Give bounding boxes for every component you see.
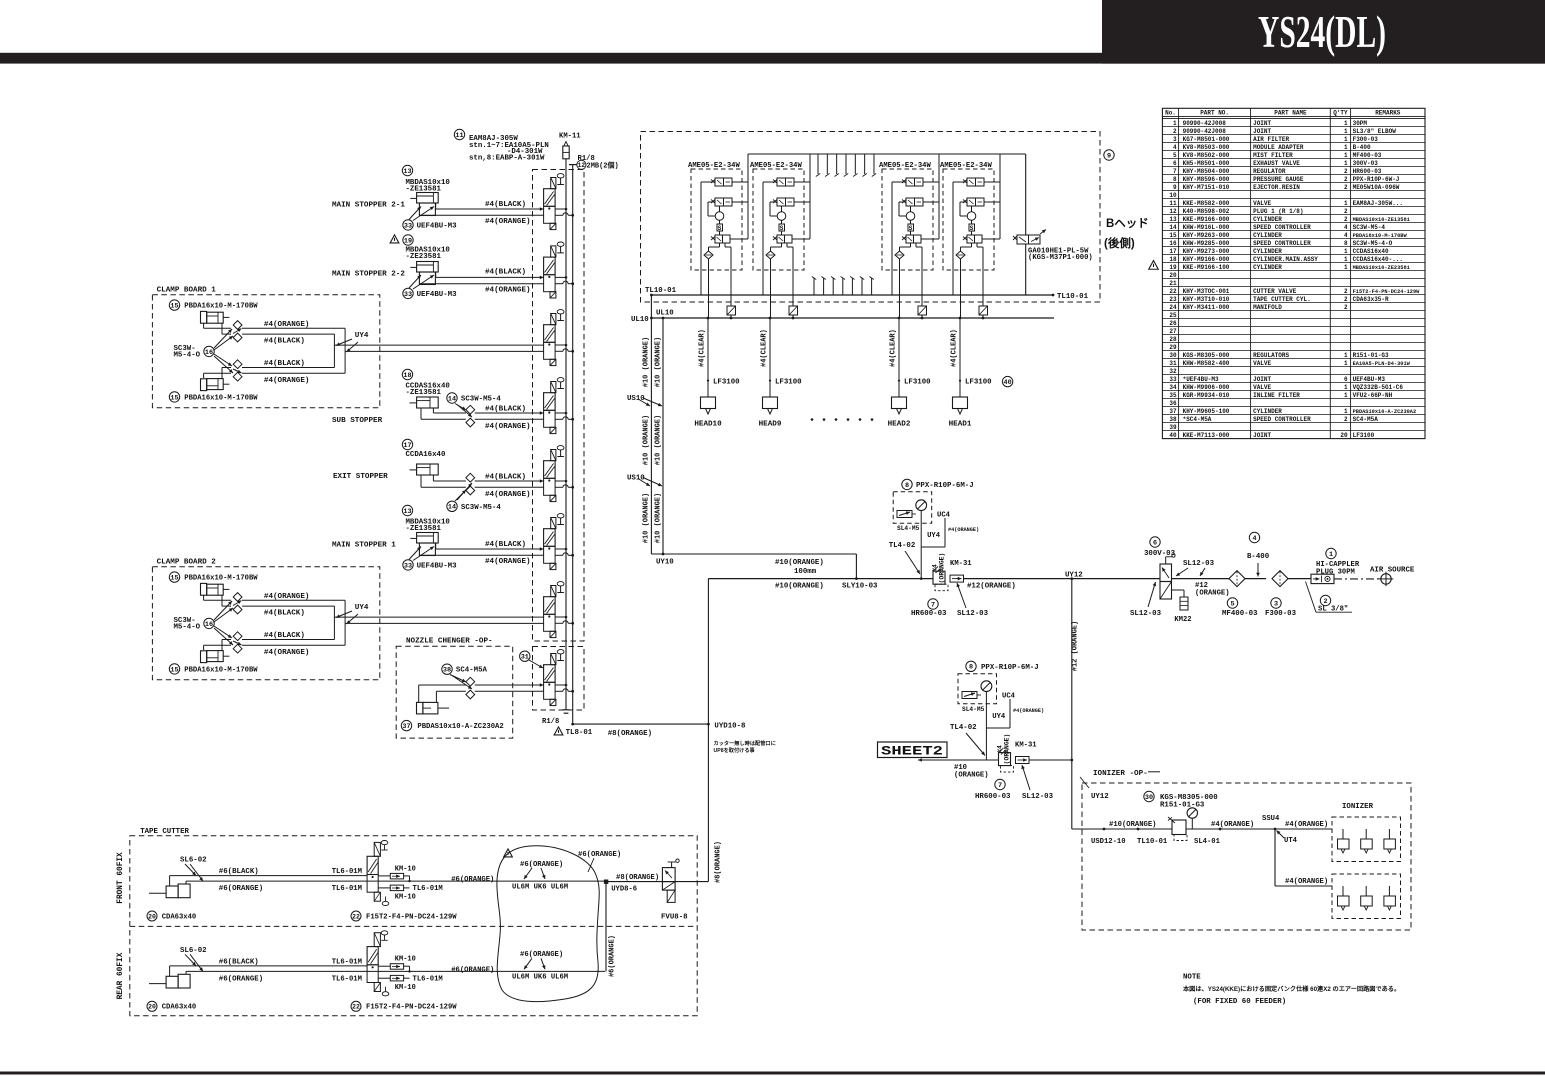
svg-text:KGR-M9934-010: KGR-M9934-010 [1183, 392, 1230, 399]
svg-text:38: 38 [443, 667, 451, 675]
svg-text:24: 24 [1169, 304, 1177, 311]
svg-text:M5-4-O: M5-4-O [174, 352, 201, 360]
svg-text:TL6-01M: TL6-01M [332, 975, 362, 983]
hand-drawn blob around UL6M labels [497, 846, 599, 1002]
svg-text:PART NO.: PART NO. [1200, 110, 1229, 117]
svg-text:17: 17 [1169, 248, 1177, 255]
svg-text:UYD8-6: UYD8-6 [611, 885, 637, 893]
speed controller 14 sub stopper [421, 393, 501, 427]
svg-text:KKE-M8582-000: KKE-M8582-000 [1183, 200, 1230, 207]
air filter 3 F300-03 [1265, 571, 1311, 618]
ionizer unit box 2 [1332, 874, 1401, 919]
svg-text:KHY-M3411-000: KHY-M3411-000 [1183, 304, 1230, 311]
svg-text:Bヘッド: Bヘッド [1106, 217, 1149, 230]
svg-text:PBDA16x10-M-170BW: PBDA16x10-M-170BW [184, 394, 258, 402]
head top supply bus [748, 153, 1026, 155]
speed controller 16 upper CLAMP BOARD 1 [204, 321, 242, 342]
svg-text:PRESSURE GAUGE: PRESSURE GAUGE [1253, 176, 1304, 183]
svg-text:PART NAME: PART NAME [1274, 110, 1307, 117]
svg-text:EXHAUST VALVE: EXHAUST VALVE [1253, 160, 1300, 167]
svg-text:EJECTOR.RESIN: EJECTOR.RESIN [1253, 184, 1300, 191]
svg-text:#6(BLACK): #6(BLACK) [219, 868, 259, 876]
svg-text:SL3/8" ELBOW: SL3/8" ELBOW [1353, 128, 1397, 135]
joint 1 HI-CAPPLER PLUG 30PM [1311, 548, 1360, 583]
svg-text:SL6-02: SL6-02 [180, 947, 207, 955]
svg-text:MAIN STOPPER 2-2: MAIN STOPPER 2-2 [332, 271, 405, 279]
svg-text:1: 1 [1344, 200, 1348, 207]
svg-text:LF3100: LF3100 [713, 379, 740, 387]
svg-text:15: 15 [170, 394, 178, 402]
svg-text:KHY-M7151-010: KHY-M7151-010 [1183, 184, 1230, 191]
svg-text:KHY-M8596-000: KHY-M8596-000 [1183, 176, 1230, 183]
svg-text:36: 36 [1169, 400, 1177, 407]
pilot bus R1/8 vertical line [569, 165, 577, 725]
module adapter 4 B-400 [1245, 532, 1270, 578]
wire #4 black main stopper 2-1 [436, 201, 544, 211]
svg-text:PBDAS10x10-A-ZC230A2: PBDAS10x10-A-ZC230A2 [1353, 409, 1417, 415]
cutter valve 22 F15T2 rear [351, 931, 457, 1012]
note text [1183, 974, 1400, 1007]
svg-text:11: 11 [455, 132, 463, 140]
svg-text:2: 2 [1344, 416, 1348, 423]
svg-text:VALVE: VALVE [1253, 360, 1271, 367]
node TL4-02 lower [950, 724, 985, 756]
svg-text:#6(ORANGE): #6(ORANGE) [219, 885, 263, 893]
svg-text:2: 2 [1344, 216, 1348, 223]
solenoid valve station 2 [544, 242, 575, 298]
svg-text:8: 8 [1173, 176, 1177, 183]
svg-text:LF3100: LF3100 [1353, 432, 1375, 439]
svg-text:S: S [970, 225, 974, 232]
svg-text:1: 1 [1344, 144, 1348, 151]
node SL12-03 left of 300V [1130, 560, 1215, 618]
svg-text:CDA63x35-R: CDA63x35-R [1353, 296, 1389, 303]
omitted stations ticks top [816, 154, 876, 177]
svg-text:15: 15 [1169, 232, 1177, 239]
regulator 7 HR600-03 upper [911, 567, 948, 619]
valve 31 callout [520, 651, 543, 668]
svg-text:CLAMP BOARD 1: CLAMP BOARD 1 [157, 287, 217, 295]
svg-text:TAPE CUTTER: TAPE CUTTER [140, 828, 189, 836]
wire #4 orange main stopper 1 [419, 555, 543, 566]
head drop line #2 [761, 317, 803, 397]
SHEET2 box [878, 742, 948, 759]
svg-text:#6(ORANGE): #6(ORANGE) [578, 851, 621, 859]
svg-text:UEF4BU-M3: UEF4BU-M3 [417, 291, 457, 299]
svg-text:S: S [718, 225, 722, 232]
svg-text:PPX-R10P-6M-J: PPX-R10P-6M-J [981, 664, 1039, 672]
joint 2 SL 3/8 elbow [1306, 582, 1353, 614]
svg-text:TL8-01: TL8-01 [566, 729, 593, 737]
svg-text:HEAD9: HEAD9 [759, 420, 782, 428]
svg-text:KM-10: KM-10 [395, 984, 416, 992]
bus TL10-01 [645, 287, 1089, 301]
wire FVU8 line [606, 881, 708, 883]
svg-text:SL12-03: SL12-03 [1022, 793, 1054, 801]
valve bank dashed enclosure [533, 170, 585, 711]
svg-text:18: 18 [403, 372, 411, 380]
svg-text:F300-03: F300-03 [1353, 136, 1379, 143]
svg-text:KHW-M8582-400: KHW-M8582-400 [1183, 360, 1230, 367]
svg-text:TL6-01M: TL6-01M [332, 868, 362, 876]
svg-text:TL6-01M: TL6-01M [413, 885, 443, 893]
svg-text:EA10A5-PLN-D4-301W: EA10A5-PLN-D4-301W [1353, 361, 1411, 367]
wire ionizer branch 2 [1275, 829, 1332, 886]
solenoid valve station 7 [544, 582, 575, 638]
svg-text:TL6-01M: TL6-01M [332, 958, 362, 966]
svg-text:8: 8 [905, 482, 909, 490]
svg-text:#6(ORANGE): #6(ORANGE) [520, 951, 563, 959]
wire #4 orange main stopper 2-1 [419, 215, 543, 226]
svg-text:R1/8: R1/8 [542, 718, 559, 726]
svg-text:13: 13 [403, 168, 411, 176]
bus UL10 [631, 310, 1054, 324]
wire sheet2 line [918, 758, 1073, 779]
warning triangle front cutter [504, 849, 513, 857]
svg-text:NOTE: NOTE [1183, 974, 1201, 982]
svg-text:1: 1 [1344, 160, 1348, 167]
svg-text:#4(ORANGE): #4(ORANGE) [485, 558, 531, 566]
svg-text:#4(BLACK): #4(BLACK) [264, 632, 305, 640]
svg-text:16: 16 [205, 349, 213, 357]
svg-text:VALVE: VALVE [1253, 384, 1271, 391]
plug 12 R1/8 top [577, 155, 619, 171]
svg-text:UEF4BU-M3: UEF4BU-M3 [417, 562, 457, 570]
svg-text:22: 22 [352, 913, 360, 920]
CLAMP BOARD 2 dashed box [152, 559, 379, 680]
svg-text:MBDAS10x10-ZE23581: MBDAS10x10-ZE23581 [1353, 265, 1410, 271]
wire #4 black exit stopper [475, 473, 544, 482]
svg-text:#4(ORANGE): #4(ORANGE) [264, 321, 310, 329]
wire #12 orange vertical UY12 [1072, 579, 1080, 760]
wire #6 black rear [170, 958, 368, 976]
svg-text:PPX-R10P-6M-J: PPX-R10P-6M-J [916, 482, 974, 490]
svg-text:38: 38 [1169, 416, 1177, 423]
svg-text:CYLINDER: CYLINDER [1253, 264, 1282, 271]
head valve group AME05-E2-34W #2 [750, 154, 810, 318]
wire #12 orange main to UY12 [964, 571, 1161, 590]
svg-text:11: 11 [1169, 200, 1177, 207]
wire #12 orange after 300V [1172, 579, 1230, 598]
svg-text:7: 7 [931, 601, 935, 609]
svg-text:14: 14 [1169, 224, 1177, 231]
svg-text:SC3W-M5-4: SC3W-M5-4 [461, 504, 501, 512]
wire rear riser to UYD8-6 [606, 882, 616, 977]
svg-text:13: 13 [403, 508, 411, 516]
wire UY4 gauge stem lower [986, 692, 1044, 765]
speed controller label 16 CLAMP BOARD 2 [174, 601, 234, 645]
svg-text:ME05W10A-096W: ME05W10A-096W [1353, 184, 1400, 191]
svg-text:KM-11: KM-11 [559, 133, 581, 141]
svg-text:UP8を取付ける事: UP8を取付ける事 [714, 746, 756, 754]
solenoid valve station 1 [544, 174, 575, 230]
valve FVU8-8 [661, 859, 688, 922]
svg-text:CYLINDER.MAIN.ASSY: CYLINDER.MAIN.ASSY [1253, 256, 1318, 263]
svg-text:UY4: UY4 [992, 713, 1006, 721]
svg-text:REAR 60FIX: REAR 60FIX [117, 952, 125, 999]
svg-text:MAIN STOPPER 2-1: MAIN STOPPER 2-1 [332, 202, 405, 210]
svg-text:CDA63x40: CDA63x40 [162, 913, 197, 921]
svg-text:#4(ORANGE): #4(ORANGE) [485, 218, 531, 226]
svg-text:#6(ORANGE): #6(ORANGE) [451, 876, 494, 884]
svg-text:KHY-M8504-000: KHY-M8504-000 [1183, 168, 1230, 175]
inline filter head group #3 [918, 306, 927, 319]
node UY10 junction [651, 553, 856, 567]
wire pair lower CLAMP BOARD 2 [242, 632, 345, 657]
svg-text:#4(BLACK): #4(BLACK) [264, 338, 305, 346]
svg-text:INLINE FILTER: INLINE FILTER [1253, 392, 1300, 399]
svg-text:HR600-03: HR600-03 [1353, 168, 1382, 175]
wire #4 black sub stopper [475, 406, 544, 415]
svg-text:stn,8:EABP-A-301W: stn,8:EABP-A-301W [469, 155, 545, 163]
wire TL8-01 line [554, 723, 708, 738]
svg-text:KHW-M9285-000: KHW-M9285-000 [1183, 240, 1230, 247]
inline filter head group #4 [979, 306, 988, 319]
svg-text:#8(ORANGE): #8(ORANGE) [616, 874, 659, 882]
svg-text:20: 20 [1340, 432, 1348, 439]
svg-text:-ZE13581: -ZE13581 [406, 389, 442, 397]
svg-text:1: 1 [1344, 248, 1348, 255]
cylinder 20 CDA63x40 rear [147, 947, 207, 1012]
svg-text:HEAD1: HEAD1 [949, 420, 972, 428]
svg-text:TL10-01: TL10-01 [645, 287, 677, 295]
svg-text:#4(ORANGE): #4(ORANGE) [485, 286, 531, 294]
svg-text:MAIN STOPPER 1: MAIN STOPPER 1 [332, 542, 396, 550]
svg-text:(後側): (後側) [1104, 236, 1135, 250]
svg-text:PLUG 1 (R 1/8): PLUG 1 (R 1/8) [1253, 208, 1303, 215]
svg-text:28: 28 [1169, 336, 1177, 343]
svg-text:CDA63x40: CDA63x40 [162, 1004, 197, 1012]
node US10 labels [627, 395, 662, 486]
svg-text:SPEED CONTROLLER: SPEED CONTROLLER [1253, 240, 1311, 247]
title bar [0, 0, 1545, 64]
cylinder 15 PBDA16x10 upper CLAMP BOARD 1 [169, 300, 258, 323]
svg-text:LF3100: LF3100 [965, 379, 992, 387]
svg-text:19: 19 [1169, 264, 1177, 271]
head section dashed box [641, 132, 1101, 303]
svg-text:SL12-03: SL12-03 [957, 610, 989, 618]
svg-text:#6(BLACK): #6(BLACK) [219, 958, 259, 966]
svg-text:MODULE ADAPTER: MODULE ADAPTER [1253, 144, 1304, 151]
svg-text:2: 2 [1344, 208, 1348, 215]
svg-text:UY4: UY4 [927, 532, 941, 540]
svg-text:#10 (ORANGE): #10 (ORANGE) [643, 415, 651, 465]
svg-text:TL6-01M: TL6-01M [332, 885, 362, 893]
svg-text:B-400: B-400 [1353, 144, 1371, 151]
svg-text:KG7-M8501-000: KG7-M8501-000 [1183, 136, 1230, 143]
svg-text:#4(BLACK): #4(BLACK) [485, 541, 526, 549]
svg-text:UL6M UK6 UL6M: UL6M UK6 UL6M [512, 974, 568, 982]
svg-text:UEF4BU-M3: UEF4BU-M3 [417, 222, 457, 230]
svg-text:B-400: B-400 [1247, 553, 1270, 561]
svg-text:#10 (ORANGE): #10 (ORANGE) [655, 415, 663, 465]
svg-text:CCDA16x40: CCDA16x40 [406, 451, 446, 459]
svg-text:#10 (ORANGE): #10 (ORANGE) [655, 493, 663, 543]
wire labels blob zone front [451, 861, 568, 892]
cylinder 37 PBDAS10x10-A-ZC230A2 nozzle chenger [401, 702, 503, 731]
svg-text:HR600-03: HR600-03 [911, 610, 947, 618]
cylinder 15 PBDA16x10 lower CLAMP BOARD 1 [169, 379, 258, 403]
svg-text:UY12: UY12 [1091, 793, 1109, 801]
svg-text:KHY-M3T10-010: KHY-M3T10-010 [1183, 296, 1230, 303]
svg-text:CYLINDER: CYLINDER [1253, 216, 1282, 223]
svg-text:1: 1 [1344, 392, 1348, 399]
svg-text:39: 39 [1169, 424, 1177, 431]
svg-text:30: 30 [1169, 352, 1177, 359]
check valve KM-10 upper rear [378, 956, 416, 973]
svg-text:KM-31: KM-31 [1015, 742, 1037, 750]
wire #6 orange rear [186, 971, 605, 983]
wire labels blob zone rear [451, 951, 568, 982]
wire #4 black main stopper 1 [436, 541, 544, 551]
svg-text:TL10-01: TL10-01 [1137, 838, 1168, 846]
solenoid valve station 6 [544, 514, 575, 570]
svg-text:SPEED CONTROLLER: SPEED CONTROLLER [1253, 416, 1311, 423]
check valve KM-10 lower rear [378, 975, 443, 992]
parts table [1162, 108, 1425, 439]
svg-text:6: 6 [1153, 539, 1157, 547]
solenoid valve station 8 [544, 650, 575, 706]
svg-text:14: 14 [448, 504, 456, 512]
svg-text:14: 14 [448, 395, 456, 403]
valve KM-11 [559, 133, 581, 159]
svg-text:CLAMP BOARD 2: CLAMP BOARD 2 [157, 559, 217, 567]
wire #4 orange sub stopper [475, 419, 544, 431]
check valve KM-10 lower front [378, 885, 443, 902]
svg-text:F15T2-F4-PN-DC24-129W: F15T2-F4-PN-DC24-129W [366, 913, 457, 921]
svg-text:#10 (ORANGE): #10 (ORANGE) [643, 493, 651, 543]
svg-text:37: 37 [1169, 408, 1177, 415]
svg-text:TL4-02: TL4-02 [889, 542, 916, 550]
wire UYD10-8 vertical [707, 579, 776, 883]
wire #4 black main stopper 2-2 [436, 268, 544, 279]
svg-text:(KGS-M37P1-000): (KGS-M37P1-000) [1028, 254, 1093, 262]
svg-text:KM-31: KM-31 [950, 560, 972, 568]
svg-text:#4(CLEAR): #4(CLEAR) [761, 329, 769, 367]
svg-text:40: 40 [1004, 379, 1012, 387]
svg-text:KHY-M9166-000: KHY-M9166-000 [1183, 256, 1230, 263]
svg-text:#8(ORANGE): #8(ORANGE) [608, 730, 652, 738]
svg-text:7: 7 [998, 782, 1002, 790]
inline filter head group #1 [727, 306, 736, 319]
svg-text:CUTTER VALVE: CUTTER VALVE [1253, 288, 1297, 295]
svg-text:4: 4 [1344, 224, 1348, 231]
solenoid valve station 4 [544, 378, 575, 434]
svg-text:34: 34 [1169, 384, 1177, 391]
solenoid valve station 3 [544, 310, 575, 366]
svg-text:#4(ORANGE): #4(ORANGE) [485, 423, 531, 431]
node SL12-03 upper [957, 583, 989, 618]
svg-text:20: 20 [148, 1004, 156, 1011]
svg-text:#6(ORANGE): #6(ORANGE) [608, 935, 616, 977]
svg-text:UY4: UY4 [355, 604, 369, 612]
svg-text:#4(CLEAR): #4(CLEAR) [699, 329, 707, 367]
svg-text:#4(BLACK): #4(BLACK) [485, 406, 526, 414]
node SL12-03 lower [1021, 765, 1053, 801]
head valve group AME05-E2-34W #3 [879, 154, 939, 318]
svg-text:12: 12 [1169, 208, 1177, 215]
svg-text:1: 1 [1344, 352, 1348, 359]
svg-text:1: 1 [1344, 384, 1348, 391]
svg-text:MIST FILTER: MIST FILTER [1253, 152, 1293, 159]
svg-text:SPEED CONTROLLER: SPEED CONTROLLER [1253, 224, 1311, 231]
regulator 30 KGS-M8305-000 R151-01-G3 [1072, 791, 1220, 840]
svg-text:#4(ORANGE): #4(ORANGE) [264, 377, 310, 385]
exhaust valve 6 300V-03 [1144, 537, 1176, 599]
joint 33 UEF4BU-M3 main stopper 2-1 [403, 207, 457, 231]
svg-text:8: 8 [969, 664, 973, 672]
svg-text:KH5-M8501-000: KH5-M8501-000 [1183, 160, 1230, 167]
cylinder 18 CCDAS16x40 sub stopper [332, 369, 450, 425]
supply bus KM-11 vertical line [563, 159, 570, 713]
svg-text:18: 18 [1169, 256, 1177, 263]
svg-text:HEAD2: HEAD2 [888, 420, 911, 428]
ejector valve GA010HE1-PL-5W [1013, 154, 1093, 295]
svg-text:CYLINDER: CYLINDER [1253, 232, 1282, 239]
svg-text:26: 26 [1169, 320, 1177, 327]
svg-text:3: 3 [1173, 136, 1177, 143]
warning triangle at table row 19 [1149, 261, 1159, 270]
svg-text:F15T2-F4-PN-DC24-129W: F15T2-F4-PN-DC24-129W [366, 1004, 457, 1012]
wire #10 orange 100mm drop [775, 554, 856, 579]
svg-text:5: 5 [1173, 152, 1177, 159]
wire #6 black front [170, 868, 368, 886]
head drop line #3 [890, 317, 932, 397]
svg-text:1: 1 [1344, 120, 1348, 127]
svg-text:KM-10: KM-10 [395, 865, 416, 873]
wire pair upper CLAMP BOARD 1 [242, 321, 345, 346]
ellipsis dots between heads [811, 418, 874, 421]
svg-text:#4(CLEAR): #4(CLEAR) [951, 329, 959, 367]
svg-text:VALVE: VALVE [1253, 200, 1271, 207]
wire ionizer supply line [1091, 815, 1332, 846]
svg-text:MF400-03: MF400-03 [1353, 152, 1382, 159]
svg-text:#4(BLACK): #4(BLACK) [264, 610, 305, 618]
svg-text:SC3W-M5-4-O: SC3W-M5-4-O [1353, 240, 1393, 247]
wire pair lower CLAMP BOARD 1 [242, 360, 345, 385]
regulator 7 HR600-03 lower [975, 748, 1014, 801]
svg-text:PBDAS10x10-A-ZC230A2: PBDAS10x10-A-ZC230A2 [417, 723, 503, 731]
head nozzles [694, 397, 722, 428]
svg-text:4: 4 [1252, 535, 1256, 543]
svg-text:#10 (ORANGE): #10 (ORANGE) [643, 337, 651, 387]
svg-text:KKE-M9166-100: KKE-M9166-100 [1183, 264, 1230, 271]
speed controller 14 exit stopper [421, 473, 501, 512]
svg-text:4: 4 [1173, 144, 1177, 151]
svg-text:本図は、YS24(KKE)における固定バンク仕様 60連X2: 本図は、YS24(KKE)における固定バンク仕様 60連X2 のエアー回路図であ… [1183, 985, 1400, 993]
svg-text:SHEET2: SHEET2 [881, 745, 943, 759]
wire pair upper CLAMP BOARD 2 [242, 593, 345, 618]
check valve KM-10 upper front [378, 865, 416, 882]
svg-text:#8(ORANGE): #8(ORANGE) [715, 841, 723, 883]
svg-text:R151-01-G3: R151-01-G3 [1160, 802, 1205, 810]
nozzle chenger dashed box [396, 638, 513, 739]
svg-text:8: 8 [1344, 240, 1348, 247]
svg-text:JOINT: JOINT [1253, 432, 1271, 439]
B head label [1104, 150, 1149, 250]
svg-text:MF400-03: MF400-03 [1222, 610, 1258, 618]
svg-text:K40-M8598-002: K40-M8598-002 [1183, 208, 1230, 215]
svg-text:UY4: UY4 [355, 332, 369, 340]
svg-text:CYLINDER: CYLINDER [1253, 248, 1282, 255]
svg-text:SC3W-M5-4: SC3W-M5-4 [461, 396, 501, 404]
svg-text:2: 2 [1344, 288, 1348, 295]
svg-text:M5-4-O: M5-4-O [174, 624, 201, 632]
tape cutter dashed box [117, 828, 697, 1016]
svg-text:30PM: 30PM [1353, 120, 1368, 127]
cylinder 19 MBDAS10x10-ZE23581 main stopper 2-2 [332, 235, 450, 285]
svg-text:(FOR FIXED 60 FEEDER): (FOR FIXED 60 FEEDER) [1193, 998, 1286, 1006]
